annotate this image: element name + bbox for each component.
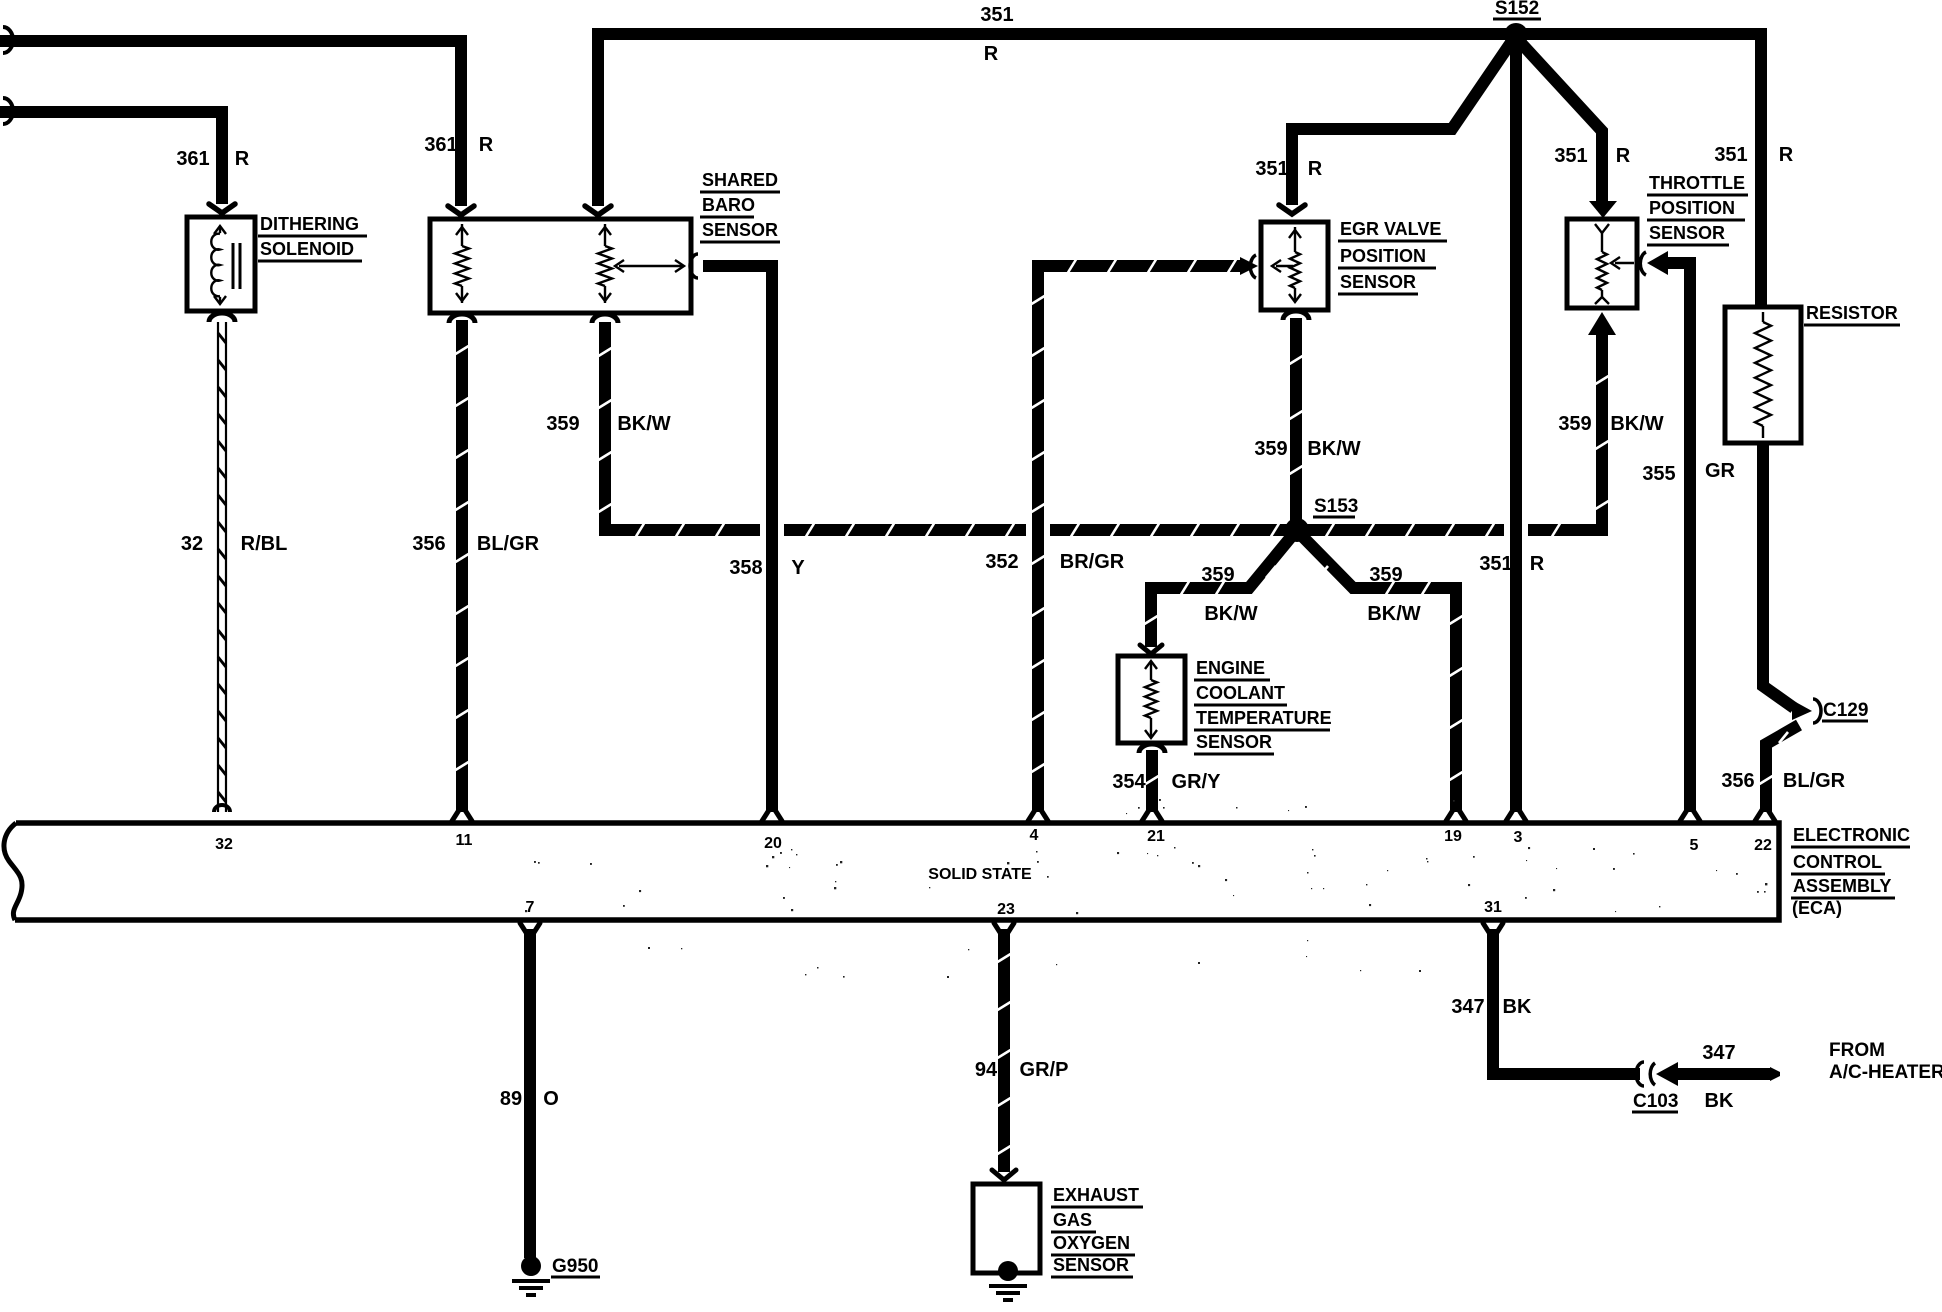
svg-text:359: 359 (1369, 564, 1402, 586)
wire 359 BK/W from S153 bus up into TPS (hatched) (1596, 335, 1608, 536)
svg-text:94: 94 (975, 1059, 998, 1081)
svg-text:22: 22 (1754, 837, 1772, 854)
svg-text:G950: G950 (552, 1256, 598, 1277)
svg-text:351: 351 (980, 4, 1013, 26)
svg-text:359: 359 (1558, 413, 1591, 435)
wire 359 BK/W from S153 down-right to ECA pin 19 (hatched) (1303, 537, 1456, 812)
svg-text:R: R (1308, 158, 1323, 180)
svg-text:32: 32 (215, 836, 233, 853)
wire 354 GR/Y from coolant sensor to ECA pin 21 (hatched) (1139, 744, 1165, 753)
wire 359 BK/W from EGR sensor down to S153 (hatched) (1283, 311, 1309, 320)
svg-text:361: 361 (424, 134, 457, 156)
svg-text:S152: S152 (1495, 0, 1539, 19)
resistor box (1725, 307, 1801, 443)
svg-text:BL/GR: BL/GR (477, 533, 540, 555)
wire 359 BK/W from baro sensor down (hatched) (592, 314, 618, 323)
coolant sensor element (1150, 662, 1152, 680)
wire 351 branch down right side to resistor (1755, 34, 1767, 309)
wire 356 BL/GR from baro sensor to ECA pin 11 (hatched) (449, 314, 475, 323)
splice S152 junction dot (1504, 23, 1528, 47)
svg-text:(ECA): (ECA) (1792, 898, 1842, 918)
wire 351 from S152 down-right to throttle position sensor (1520, 42, 1602, 203)
svg-text:GR/P: GR/P (1020, 1059, 1069, 1081)
svg-text:EXHAUST: EXHAUST (1053, 1185, 1139, 1205)
svg-text:ELECTRONIC: ELECTRONIC (1793, 825, 1910, 845)
dithering solenoid core bars (232, 243, 235, 289)
svg-text:5: 5 (1690, 837, 1699, 854)
svg-text:R: R (1779, 144, 1794, 166)
svg-text:BR/GR: BR/GR (1060, 551, 1125, 573)
svg-text:ENGINE: ENGINE (1196, 658, 1265, 678)
resistor element (1762, 312, 1764, 322)
svg-text:SENSOR: SENSOR (702, 220, 778, 240)
svg-text:358: 358 (729, 557, 762, 579)
svg-text:TEMPERATURE: TEMPERATURE (1196, 708, 1332, 728)
svg-text:R: R (984, 43, 999, 65)
svg-text:21: 21 (1147, 828, 1165, 845)
svg-text:89: 89 (500, 1088, 522, 1110)
wire 359 BK/W horizontal bus segment 1 (599, 524, 760, 536)
wire 359 BK/W horizontal bus segment 2 (784, 524, 1026, 536)
svg-text:351: 351 (1714, 144, 1747, 166)
svg-text:O: O (543, 1088, 559, 1110)
svg-text:R/BL: R/BL (241, 533, 288, 555)
svg-text:SENSOR: SENSOR (1649, 223, 1725, 243)
svg-text:11: 11 (456, 832, 473, 849)
wire 351 R horizontal bus at top (592, 28, 1767, 40)
wire 347 BK from A/C-heater into C103 (1656, 1062, 1678, 1086)
svg-text:OXYGEN: OXYGEN (1053, 1233, 1130, 1253)
svg-text:4: 4 (1030, 827, 1039, 844)
wire 89 O from ECA pin 7 to ground G950 (520, 923, 527, 934)
EGR sensor wiper arrow (1276, 265, 1293, 267)
svg-text:SENSOR: SENSOR (1196, 732, 1272, 752)
wire 356 BL/GR from C129 to ECA pin 22 (hatched) (1766, 725, 1799, 812)
wire 351 from S152 down-left to EGR valve position sensor (1292, 41, 1512, 205)
svg-text:C103: C103 (1633, 1091, 1678, 1112)
ECA box outline (15, 823, 1779, 920)
baro sensor left element (resistor) (461, 224, 463, 246)
svg-text:356: 356 (1721, 770, 1754, 792)
baro sensor right element (potentiometer) (604, 224, 606, 246)
svg-text:BK: BK (1705, 1090, 1734, 1112)
throttle position sensor box (1567, 219, 1637, 308)
svg-text:EGR VALVE: EGR VALVE (1340, 219, 1441, 239)
wire 355 GR from TPS right terminal to ECA pin 5 (1640, 252, 1646, 275)
svg-text:SENSOR: SENSOR (1340, 272, 1416, 292)
svg-text:GAS: GAS (1053, 1210, 1092, 1230)
svg-text:POSITION: POSITION (1340, 246, 1426, 266)
dithering solenoid coil (211, 234, 220, 296)
wire 352 BR/GR into EGR sensor left terminal (hatched) (1038, 266, 1240, 812)
svg-text:POSITION: POSITION (1649, 198, 1735, 218)
EGR valve position sensor box (1261, 222, 1328, 310)
svg-text:31: 31 (1484, 899, 1502, 916)
svg-text:20: 20 (764, 835, 782, 852)
svg-text:BK/W: BK/W (1610, 413, 1663, 435)
ground G950 symbol (521, 1256, 541, 1276)
connector C103 cups (1636, 1062, 1644, 1086)
svg-text:351: 351 (1255, 158, 1288, 180)
svg-text:R: R (1530, 553, 1545, 575)
svg-text:C129: C129 (1823, 700, 1868, 721)
svg-text:BK/W: BK/W (617, 413, 670, 435)
svg-text:7: 7 (526, 899, 535, 916)
wire 361 R from left edge to dithering solenoid (0, 112, 222, 204)
svg-text:23: 23 (997, 901, 1015, 918)
TPS wiper arrow (1615, 262, 1634, 264)
wire 347 BK from ECA pin 31 to connector C103 (1483, 923, 1490, 934)
svg-text:S153: S153 (1314, 496, 1358, 517)
svg-text:355: 355 (1642, 463, 1675, 485)
svg-text:BK/W: BK/W (1204, 603, 1257, 625)
splice S153 junction dot (1285, 518, 1309, 542)
oxygen sensor ground (998, 1261, 1018, 1281)
svg-text:R: R (479, 134, 494, 156)
baro sensor right terminal cup (690, 254, 698, 278)
svg-text:BK/W: BK/W (1307, 438, 1360, 460)
wire 351 R from S152 straight down to ECA pin 3 (1510, 41, 1522, 812)
wire 32 R/BL from solenoid to ECA pin 32 (striped) (209, 313, 235, 322)
TPS element (1595, 224, 1609, 233)
svg-text:BARO: BARO (702, 195, 755, 215)
svg-text:A/C-HEATER: A/C-HEATER (1829, 1062, 1942, 1083)
svg-text:CONTROL: CONTROL (1793, 852, 1882, 872)
svg-text:351: 351 (1554, 145, 1587, 167)
svg-text:32: 32 (181, 533, 203, 555)
wire 351 R from resistor down to connector C129 (1763, 443, 1794, 708)
svg-text:BL/GR: BL/GR (1783, 770, 1846, 792)
svg-text:359: 359 (546, 413, 579, 435)
svg-text:3: 3 (1514, 829, 1523, 846)
connector C129 cup (1813, 699, 1821, 723)
svg-text:THROTTLE: THROTTLE (1649, 173, 1745, 193)
wire 94 GR/P from ECA pin 23 to oxygen sensor (hatched) (994, 923, 1001, 934)
svg-text:356: 356 (412, 533, 445, 555)
svg-text:347: 347 (1702, 1042, 1735, 1064)
wire 361 R from left edge to shared baro sensor (0, 41, 461, 206)
wire 359 BK/W from S153 down-left to coolant sensor (hatched) (1151, 537, 1291, 647)
svg-text:COOLANT: COOLANT (1196, 683, 1285, 703)
shared baro sensor box (430, 219, 691, 313)
svg-text:354: 354 (1112, 771, 1146, 793)
exhaust gas oxygen sensor box (973, 1184, 1040, 1273)
wire 359 BK/W horizontal bus segment 4 (1528, 524, 1608, 536)
EGR sensor element (1294, 227, 1296, 252)
svg-text:RESISTOR: RESISTOR (1806, 303, 1898, 323)
svg-text:BK: BK (1503, 996, 1532, 1018)
svg-text:FROM: FROM (1829, 1040, 1885, 1061)
svg-text:SENSOR: SENSOR (1053, 1255, 1129, 1275)
engine coolant temperature sensor box (1118, 656, 1185, 743)
connector stub at left edge for wire 361 (upper) (3, 27, 13, 53)
svg-text:361: 361 (176, 148, 209, 170)
svg-text:R: R (235, 148, 250, 170)
svg-text:SHARED: SHARED (702, 170, 778, 190)
wire 358 Y from baro sensor to ECA pin 20 (703, 266, 772, 812)
svg-text:SOLENOID: SOLENOID (260, 239, 354, 259)
svg-text:352: 352 (985, 551, 1018, 573)
svg-text:351: 351 (1479, 553, 1512, 575)
svg-text:BK/W: BK/W (1367, 603, 1420, 625)
svg-text:ASSEMBLY: ASSEMBLY (1793, 876, 1891, 896)
dithering solenoid box (187, 217, 255, 311)
svg-text:Y: Y (791, 557, 805, 579)
svg-text:359: 359 (1201, 564, 1234, 586)
svg-text:359: 359 (1254, 438, 1287, 460)
baro sensor wiper arrow to right terminal (619, 265, 682, 267)
svg-text:19: 19 (1444, 828, 1462, 845)
scan speckle noise in ECA area (1312, 849, 1313, 850)
svg-text:SOLID STATE: SOLID STATE (928, 866, 1032, 883)
svg-text:347: 347 (1451, 996, 1484, 1018)
svg-text:DITHERING: DITHERING (260, 214, 359, 234)
svg-text:GR/Y: GR/Y (1172, 771, 1222, 793)
svg-text:R: R (1616, 145, 1631, 167)
connector stub at left edge for wire 361 (lower) (3, 98, 13, 124)
svg-text:GR: GR (1705, 460, 1736, 482)
wire 359 BK/W horizontal bus segment 3 (1050, 524, 1504, 536)
wire 351 branch down to shared baro right terminal (592, 34, 604, 206)
